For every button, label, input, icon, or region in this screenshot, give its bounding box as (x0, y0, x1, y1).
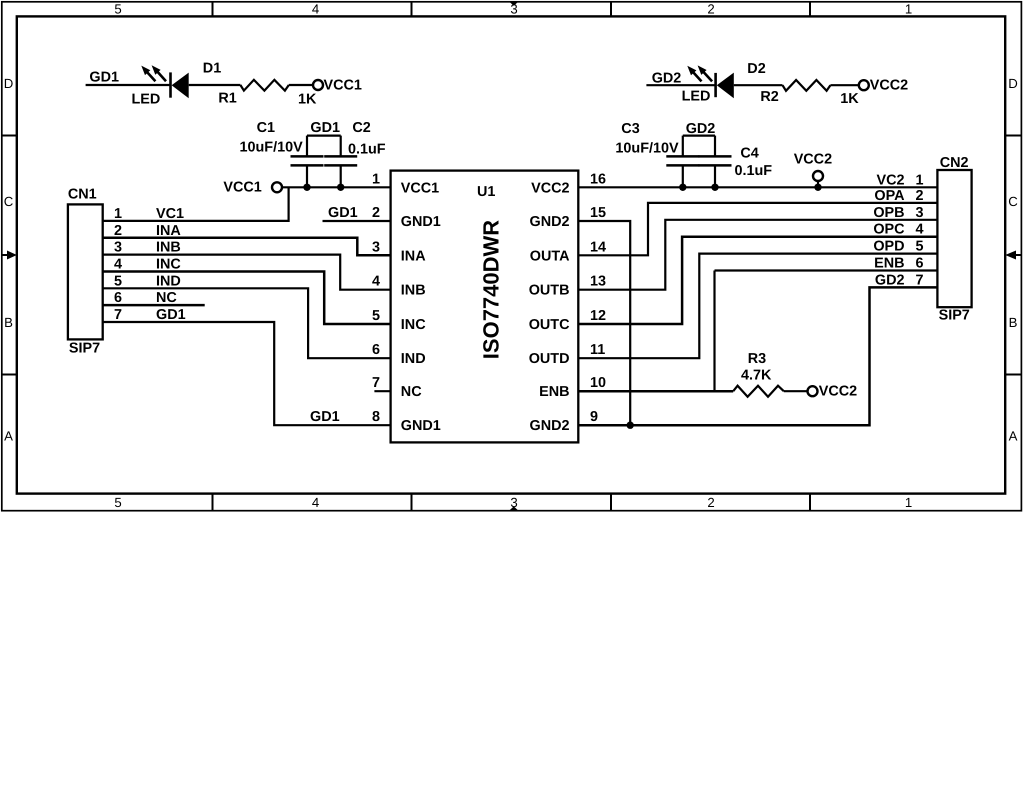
svg-text:1: 1 (905, 2, 912, 17)
bottom margin zone ticks (213, 494, 811, 511)
terminal circle VCC1 at chip (272, 182, 282, 192)
svg-text:2: 2 (114, 223, 122, 239)
svg-text:15: 15 (590, 205, 606, 221)
svg-text:GND2: GND2 (530, 214, 570, 230)
wire GD1 CN1 pin7 to U1 pin8 (103, 322, 391, 425)
svg-text:5: 5 (114, 2, 121, 17)
svg-text:0.1uF: 0.1uF (735, 163, 773, 179)
wire GND1 stub U1 pin2 (323, 220, 391, 222)
capacitor C4 top lead (714, 136, 716, 157)
svg-text:10uF/10V: 10uF/10V (240, 140, 304, 156)
svg-text:5: 5 (372, 308, 380, 324)
svg-text:10: 10 (590, 375, 606, 391)
junction dot C4 on VCC2 rail (711, 184, 718, 191)
svg-text:16: 16 (590, 171, 606, 187)
svg-text:GD2: GD2 (686, 121, 716, 137)
svg-text:OPC: OPC (873, 222, 904, 238)
top margin center arrow (509, 2, 519, 6)
wire OUTC U1 pin12 to CN2 pin4 (578, 237, 937, 324)
svg-text:C2: C2 (352, 120, 370, 136)
svg-text:GD1: GD1 (328, 205, 358, 221)
wire INB CN1 pin3 to U1 pin4 (103, 255, 391, 290)
svg-text:R3: R3 (748, 351, 766, 367)
svg-text:SIP7: SIP7 (939, 308, 970, 324)
svg-text:GND1: GND1 (401, 418, 441, 434)
svg-text:4: 4 (916, 222, 924, 238)
svg-text:VC2: VC2 (877, 172, 905, 188)
svg-text:NC: NC (401, 384, 422, 400)
svg-text:1: 1 (114, 206, 122, 222)
svg-text:1K: 1K (840, 91, 859, 107)
LED D1 cathode bar (169, 72, 172, 97)
svg-text:GD2: GD2 (875, 272, 905, 288)
wire VC1 CN1 pin1 to VCC1 rail (103, 187, 289, 221)
capacitor C2 bottom lead (340, 165, 342, 187)
junction dot GND2 at pin9 run (627, 422, 634, 429)
capacitor C4 plates (699, 156, 732, 165)
svg-text:GD1: GD1 (310, 409, 340, 425)
svg-text:6: 6 (916, 256, 924, 272)
svg-text:ISO7740DWR: ISO7740DWR (479, 220, 504, 359)
wire GD2 to LED D2 anode (646, 84, 715, 86)
junction dot C1 on VCC1 rail (303, 184, 310, 191)
svg-text:GND2: GND2 (530, 418, 570, 434)
wire VCC2 terminal stem (817, 181, 819, 187)
right zone labels D C B A (1008, 76, 1018, 444)
svg-text:INA: INA (401, 248, 426, 264)
wire GD2 bar over C3 C4 (683, 135, 715, 137)
svg-text:C1: C1 (257, 120, 275, 136)
svg-text:0.1uF: 0.1uF (348, 142, 386, 158)
svg-text:9: 9 (590, 409, 598, 425)
svg-text:LED: LED (132, 91, 161, 107)
resistor R2 zigzag (783, 80, 831, 91)
wire GD1 bar over C1 C2 (307, 135, 341, 137)
svg-text:U1: U1 (477, 184, 495, 200)
svg-text:B: B (4, 315, 13, 330)
wire NC stub U1 pin7 (374, 390, 390, 392)
wire R3 to VCC2 terminal (784, 390, 808, 392)
svg-text:D2: D2 (747, 61, 765, 77)
svg-text:VCC2: VCC2 (531, 180, 569, 196)
wire VCC1 rail to chip pin 1 (282, 186, 391, 188)
svg-text:GND1: GND1 (401, 214, 441, 230)
svg-text:VCC1: VCC1 (223, 180, 261, 196)
connector CN2 body (937, 170, 971, 307)
wire IND CN1 pin5 to U1 pin6 (103, 288, 391, 358)
svg-text:D: D (1008, 76, 1018, 91)
svg-text:2: 2 (707, 495, 714, 510)
op-amp U1 ISO7740DWR body (391, 171, 579, 443)
svg-text:3: 3 (510, 495, 517, 510)
drawing frame outer border (2, 2, 1022, 511)
capacitor C3 bottom lead (682, 165, 684, 187)
svg-text:OPA: OPA (874, 188, 905, 204)
svg-text:ENB: ENB (539, 384, 569, 400)
svg-text:8: 8 (372, 409, 380, 425)
connector CN1 body (68, 204, 103, 339)
left margin zone ticks (2, 136, 17, 375)
svg-text:2: 2 (707, 2, 714, 17)
svg-text:OUTD: OUTD (529, 351, 570, 367)
svg-text:VCC2: VCC2 (819, 384, 857, 400)
svg-text:NC: NC (156, 290, 177, 306)
svg-text:OUTB: OUTB (529, 283, 570, 299)
svg-text:2: 2 (916, 188, 924, 204)
svg-text:C3: C3 (621, 121, 639, 137)
U1 right pin names (529, 180, 570, 434)
svg-text:GD2: GD2 (652, 71, 682, 87)
svg-text:SIP7: SIP7 (69, 340, 100, 356)
right margin zone ticks (1005, 136, 1021, 375)
terminal circle VCC2 at R3 (808, 386, 818, 396)
wire OUTA U1 pin14 to CN2 pin2 (578, 203, 937, 255)
wire GND2 U1 pin9 to CN2 pin7 (578, 287, 937, 425)
LED D1 emission arrow 2 (152, 65, 166, 81)
svg-text:OPB: OPB (873, 205, 904, 221)
wire GD1 to LED D1 anode (86, 84, 171, 86)
svg-text:VCC1: VCC1 (401, 180, 439, 196)
svg-text:6: 6 (114, 290, 122, 306)
svg-text:5: 5 (114, 495, 121, 510)
wire NC stub CN1 pin6 (103, 304, 205, 307)
CN1 net labels (156, 206, 186, 323)
junction dot VCC2 terminal on rail (814, 184, 821, 191)
svg-text:OUTC: OUTC (529, 317, 570, 333)
svg-text:1: 1 (905, 495, 912, 510)
wire D1 to R1 (189, 84, 241, 86)
svg-text:GD1: GD1 (89, 70, 119, 86)
svg-text:14: 14 (590, 239, 606, 255)
svg-text:2: 2 (372, 205, 380, 221)
svg-text:A: A (1009, 429, 1018, 444)
svg-text:7: 7 (916, 272, 924, 288)
wire D2 to R2 (734, 84, 783, 86)
wire R1 to VCC1 terminal (289, 84, 313, 86)
svg-text:INC: INC (401, 317, 426, 333)
svg-text:1: 1 (372, 171, 380, 187)
top zone labels 5 4 3 2 1 (114, 2, 912, 17)
svg-text:7: 7 (114, 307, 122, 323)
svg-text:R1: R1 (218, 90, 236, 106)
capacitor C3 top lead (682, 136, 684, 157)
svg-text:INB: INB (401, 283, 426, 299)
capacitor C3 plates (666, 156, 699, 165)
right margin center arrow (1005, 251, 1021, 260)
svg-text:INC: INC (156, 256, 181, 272)
svg-text:1K: 1K (298, 91, 317, 107)
junction dot C2 on VCC1 rail (337, 184, 344, 191)
svg-text:GD1: GD1 (310, 120, 340, 136)
svg-text:C4: C4 (740, 146, 758, 162)
svg-text:D: D (4, 76, 14, 91)
capacitor C2 plates (324, 156, 357, 165)
svg-text:A: A (4, 429, 13, 444)
LED D1 triangle (172, 73, 189, 99)
svg-text:VCC2: VCC2 (870, 78, 908, 94)
capacitor C1 plates (291, 156, 324, 165)
svg-text:3: 3 (114, 240, 122, 256)
CN2 pin numbers 1-7 (916, 172, 924, 288)
LED D2 emission arrow 1 (687, 66, 701, 82)
svg-text:5: 5 (916, 239, 924, 255)
LED D2 cathode bar (714, 73, 717, 97)
svg-text:11: 11 (590, 342, 605, 358)
top margin zone ticks (213, 2, 811, 17)
svg-text:7: 7 (372, 375, 380, 391)
svg-text:B: B (1009, 315, 1018, 330)
CN2 net labels (873, 172, 905, 288)
resistor R3 zigzag (733, 386, 784, 397)
svg-text:4: 4 (114, 256, 122, 272)
svg-text:R2: R2 (760, 89, 778, 105)
svg-text:INA: INA (156, 223, 181, 239)
terminal circle VCC1 at R1 (313, 80, 323, 90)
bottom zone labels 5 4 3 2 1 (114, 495, 912, 510)
svg-text:4: 4 (312, 495, 319, 510)
bottom margin center arrow (509, 506, 519, 510)
svg-text:GD1: GD1 (156, 307, 186, 323)
svg-text:IND: IND (156, 273, 181, 289)
svg-text:CN1: CN1 (68, 187, 97, 203)
svg-text:5: 5 (114, 273, 122, 289)
svg-text:VC1: VC1 (156, 206, 184, 222)
wire GND2 U1 pin15 down to pin9 run (578, 221, 630, 425)
svg-text:13: 13 (590, 274, 606, 290)
capacitor C1 bottom lead (306, 165, 308, 187)
svg-text:IND: IND (401, 351, 426, 367)
CN1 pin numbers 1-7 (114, 206, 122, 323)
U1 left pin names (401, 180, 441, 434)
svg-text:D1: D1 (203, 61, 221, 77)
junction dot C3 on VCC2 rail (679, 184, 686, 191)
left margin center arrow (2, 251, 17, 260)
wire R2 to VCC2 terminal (830, 84, 858, 86)
LED D1 emission arrow 1 (141, 66, 155, 82)
svg-text:INB: INB (156, 240, 181, 256)
svg-text:VCC1: VCC1 (324, 77, 362, 93)
svg-text:3: 3 (372, 239, 380, 255)
svg-text:C: C (4, 194, 14, 209)
svg-text:OPD: OPD (873, 239, 904, 255)
svg-text:1: 1 (916, 172, 924, 188)
resistor R1 zigzag (240, 80, 288, 91)
wire ENB CN2 pin6 drop (715, 269, 938, 271)
wire ENB U1 pin10 to R3 (578, 390, 733, 393)
wire VCC2 rail chip pin 16 to CN2 pin 1 (578, 186, 937, 188)
drawing frame inner border (17, 16, 1005, 493)
wire OUTD U1 pin11 to CN2 pin5 (578, 254, 937, 359)
capacitor C1 top lead (306, 136, 308, 157)
wire INC CN1 pin4 to U1 pin5 (103, 271, 391, 324)
svg-text:C: C (1008, 194, 1018, 209)
wire ENB vertical to pin10 run (713, 271, 715, 392)
terminal circle VCC2 at R2 (859, 80, 869, 90)
svg-text:10uF/10V: 10uF/10V (615, 141, 679, 157)
wire OUTB U1 pin13 to CN2 pin3 (578, 220, 937, 290)
left zone labels D C B A (4, 76, 14, 444)
svg-text:CN2: CN2 (940, 155, 969, 171)
svg-text:6: 6 (372, 342, 380, 358)
svg-text:LED: LED (682, 88, 711, 104)
LED D2 triangle (717, 73, 734, 99)
svg-text:VCC2: VCC2 (794, 152, 832, 168)
svg-text:4: 4 (372, 274, 380, 290)
svg-text:4.7K: 4.7K (741, 368, 772, 384)
svg-text:4: 4 (312, 2, 319, 17)
svg-text:12: 12 (590, 308, 606, 324)
svg-text:ENB: ENB (874, 256, 904, 272)
svg-text:OUTA: OUTA (530, 248, 570, 264)
capacitor C4 bottom lead (714, 165, 716, 187)
svg-text:3: 3 (510, 2, 517, 17)
capacitor C2 top lead (340, 136, 342, 157)
terminal circle VCC2 above rail (813, 171, 823, 181)
svg-text:3: 3 (916, 205, 924, 221)
wire INA CN1 pin2 to U1 pin3 (103, 238, 391, 256)
LED D2 emission arrow 2 (698, 65, 713, 81)
